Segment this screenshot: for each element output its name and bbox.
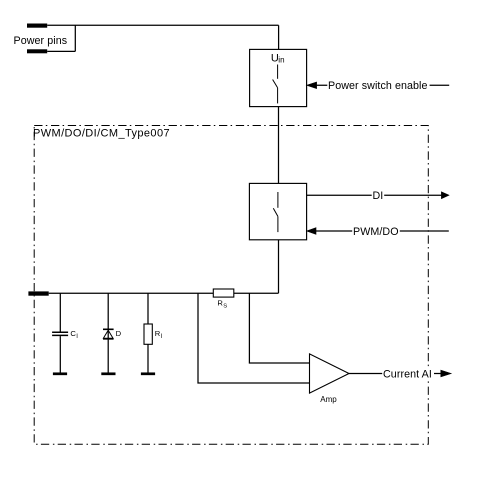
svg-text:PWM/DO: PWM/DO: [353, 226, 399, 238]
svg-text:D: D: [116, 329, 122, 338]
svg-text:PWM/DO/DI/CM_Type007: PWM/DO/DI/CM_Type007: [33, 128, 170, 140]
svg-text:Current AI: Current AI: [383, 368, 432, 380]
svg-text:S: S: [223, 304, 227, 310]
svg-text:Power switch enable: Power switch enable: [328, 80, 428, 92]
svg-text:Amp: Amp: [320, 395, 337, 404]
svg-text:DI: DI: [373, 190, 384, 202]
svg-text:Power pins: Power pins: [14, 35, 68, 47]
svg-text:in: in: [278, 55, 284, 64]
